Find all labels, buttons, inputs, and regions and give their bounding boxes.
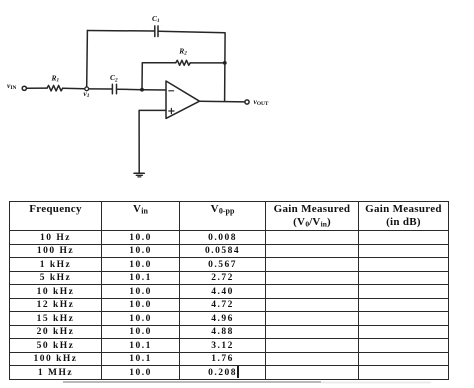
svg-text:vIN: vIN (7, 81, 16, 91)
capacitor C2 (111, 84, 113, 94)
wire input terminal to R1 (27, 87, 47, 89)
svg-text:C2: C2 (110, 73, 118, 83)
wire op-amp output to terminal (200, 100, 245, 103)
wire junction A to op-amp inverting input (142, 89, 166, 91)
svg-text:v1: v1 (83, 89, 89, 99)
resistor R1 (47, 85, 63, 91)
junction B dot (223, 61, 227, 65)
wire op-amp + input to ground drop (139, 110, 166, 173)
ground (134, 172, 144, 174)
input terminal vIN (22, 86, 26, 90)
capacitor C1 (154, 26, 156, 37)
wire C2 to junction A (117, 88, 142, 91)
svg-text:vOUT: vOUT (254, 97, 269, 107)
junction A dot (140, 88, 144, 92)
wire C1 to top right corner and down to output node (159, 31, 225, 101)
output terminal vOUT (245, 100, 249, 104)
node v1 (open circle) (85, 87, 89, 91)
text cursor after 0.208 (237, 366, 238, 378)
wire R2 to junction B (190, 62, 225, 64)
svg-text:R1: R1 (51, 73, 60, 83)
op-amp U1 (166, 81, 200, 118)
wire top left to C1 (87, 30, 153, 33)
wire node v1 to C2 (89, 88, 112, 90)
wire junction A up and to R2 (142, 63, 176, 90)
wire R1 to node v1 (63, 87, 85, 90)
circuit schematic: multiple-feedback band-pass filter (0, 0, 474, 198)
measurement table (9, 201, 449, 380)
svg-text:R2: R2 (178, 46, 187, 56)
op-amp minus pin mark (169, 90, 174, 92)
resistor R2 (176, 60, 190, 65)
op-amp plus pin mark (169, 110, 174, 112)
svg-text:C1: C1 (152, 14, 160, 24)
wire node v1 up to top feedback branch (86, 31, 89, 87)
scan artifact: faint line under table (63, 381, 321, 382)
